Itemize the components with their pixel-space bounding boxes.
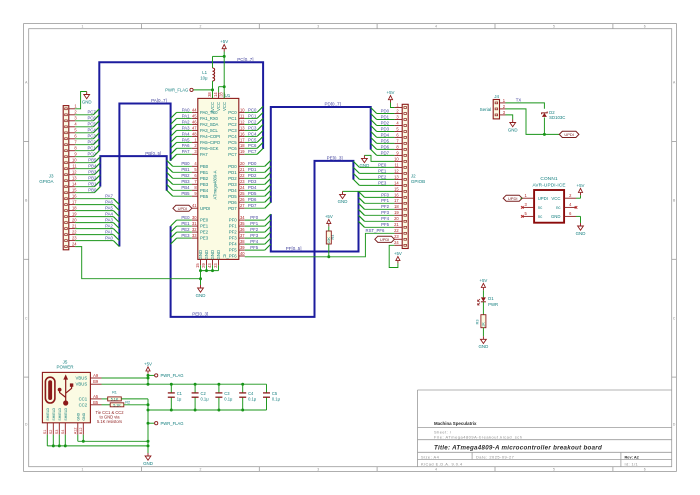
svg-text:16: 16 xyxy=(240,131,245,136)
svg-text:PF1: PF1 xyxy=(229,224,237,229)
svg-text:41: 41 xyxy=(192,203,197,208)
svg-text:28: 28 xyxy=(219,92,224,97)
svg-text:PA1: PA1 xyxy=(182,113,190,118)
svg-text:PE1: PE1 xyxy=(378,168,387,173)
svg-text:10μ: 10μ xyxy=(200,76,208,81)
svg-text:PA0: PA0 xyxy=(182,107,190,112)
svg-text:PD6: PD6 xyxy=(228,200,237,205)
svg-text:21: 21 xyxy=(240,167,245,172)
svg-text:PC4: PC4 xyxy=(87,128,96,133)
svg-text:ATmega4809-A: ATmega4809-A xyxy=(213,170,218,199)
svg-text:PF3: PF3 xyxy=(250,233,258,238)
svg-text:0.1μ: 0.1μ xyxy=(248,397,257,402)
svg-text:22: 22 xyxy=(72,230,77,235)
svg-text:30: 30 xyxy=(192,215,197,220)
svg-text:24: 24 xyxy=(72,242,77,247)
svg-text:PC3: PC3 xyxy=(228,128,237,133)
svg-text:11: 11 xyxy=(72,164,77,169)
svg-text:PA1: PA1 xyxy=(105,230,113,235)
svg-text:Serial: Serial xyxy=(480,107,492,112)
svg-text:J2: J2 xyxy=(411,174,416,179)
svg-text:PF5: PF5 xyxy=(229,248,237,253)
svg-text:21: 21 xyxy=(394,222,399,227)
svg-text:PB3: PB3 xyxy=(88,170,97,175)
svg-text:PE0: PE0 xyxy=(200,218,209,223)
svg-text:Date: 2025-09-27: Date: 2025-09-27 xyxy=(476,454,514,459)
svg-text:PD4: PD4 xyxy=(228,188,237,193)
svg-text:PC4: PC4 xyxy=(248,131,257,136)
svg-text:GND: GND xyxy=(82,99,92,104)
svg-text:PA4: PA4 xyxy=(182,131,190,136)
svg-text:GND: GND xyxy=(143,461,153,466)
svg-text:5.1K: 5.1K xyxy=(111,397,119,401)
svg-text:GND: GND xyxy=(198,250,203,260)
svg-text:PE[0..3]: PE[0..3] xyxy=(327,156,343,161)
svg-text:+5V: +5V xyxy=(220,39,228,44)
svg-text:SHIELD: SHIELD xyxy=(46,407,50,420)
svg-text:PE3: PE3 xyxy=(378,180,387,185)
svg-text:PD1: PD1 xyxy=(381,114,390,119)
svg-text:1: 1 xyxy=(82,25,84,29)
svg-text:PF4: PF4 xyxy=(381,216,389,221)
svg-text:PA0: PA0 xyxy=(105,236,113,241)
svg-text:PC2: PC2 xyxy=(87,140,96,145)
svg-text:PB1: PB1 xyxy=(88,182,97,187)
svg-text:PB3: PB3 xyxy=(200,182,209,187)
svg-text:18: 18 xyxy=(240,143,245,148)
svg-text:PC5: PC5 xyxy=(248,137,257,142)
svg-text:C1: C1 xyxy=(177,391,183,396)
svg-text:PD5: PD5 xyxy=(228,194,237,199)
svg-text:Sheet: /: Sheet: / xyxy=(434,429,452,434)
svg-text:GPIOA: GPIOA xyxy=(39,179,53,184)
svg-text:19: 19 xyxy=(240,149,245,154)
svg-text:GND: GND xyxy=(479,344,489,349)
svg-text:43: 43 xyxy=(207,263,212,268)
svg-text:PA5~CIPO: PA5~CIPO xyxy=(200,140,221,145)
svg-text:5: 5 xyxy=(553,25,555,29)
svg-text:S1: S1 xyxy=(43,430,47,435)
svg-text:PD3: PD3 xyxy=(381,126,390,131)
svg-text:C5: C5 xyxy=(272,391,278,396)
svg-text:19: 19 xyxy=(394,210,399,215)
svg-text:5.1K: 5.1K xyxy=(113,403,121,407)
svg-text:Title: ATmega4809-A microcontr: Title: ATmega4809-A microcontroller brea… xyxy=(434,444,602,451)
svg-text:44: 44 xyxy=(192,107,197,112)
svg-text:PD6: PD6 xyxy=(248,197,257,202)
svg-text:PA6: PA6 xyxy=(105,200,113,205)
svg-text:38: 38 xyxy=(240,239,245,244)
svg-text:12: 12 xyxy=(394,168,399,173)
svg-text:PA[0..7]: PA[0..7] xyxy=(151,98,167,103)
svg-text:PE2: PE2 xyxy=(181,227,190,232)
svg-text:R_PF6: R_PF6 xyxy=(223,254,237,259)
svg-text:PA4~COPI: PA4~COPI xyxy=(200,134,220,139)
svg-text:SHIELD: SHIELD xyxy=(52,407,56,420)
svg-text:PC1: PC1 xyxy=(87,146,96,151)
svg-text:1K: 1K xyxy=(482,322,486,327)
svg-text:GND: GND xyxy=(508,127,518,132)
svg-text:PD2: PD2 xyxy=(228,176,237,181)
svg-text:1: 1 xyxy=(82,468,84,472)
svg-text:21: 21 xyxy=(72,224,77,229)
svg-text:17: 17 xyxy=(240,137,245,142)
svg-text:20: 20 xyxy=(240,161,245,166)
svg-text:PD7: PD7 xyxy=(248,203,257,208)
svg-text:18: 18 xyxy=(394,204,399,209)
svg-text:RST_PF6: RST_PF6 xyxy=(366,228,385,233)
svg-text:GND: GND xyxy=(76,412,80,420)
svg-text:PF2: PF2 xyxy=(250,227,258,232)
svg-text:C4: C4 xyxy=(248,391,254,396)
svg-text:GND: GND xyxy=(210,250,215,260)
svg-text:15: 15 xyxy=(394,186,399,191)
svg-text:+5V: +5V xyxy=(325,214,333,219)
svg-text:PC2: PC2 xyxy=(228,122,237,127)
svg-text:PB5: PB5 xyxy=(181,191,190,196)
svg-text:PE2: PE2 xyxy=(200,230,209,235)
svg-text:PA1_RX0: PA1_RX0 xyxy=(200,116,219,121)
svg-text:40: 40 xyxy=(240,251,245,256)
svg-text:33: 33 xyxy=(213,263,218,268)
svg-text:PF4: PF4 xyxy=(250,239,258,244)
svg-text:10: 10 xyxy=(72,158,77,163)
svg-text:12: 12 xyxy=(72,170,77,175)
svg-text:PB1: PB1 xyxy=(181,167,190,172)
svg-text:46: 46 xyxy=(192,119,197,124)
svg-text:PF3: PF3 xyxy=(229,236,237,241)
svg-text:1μ: 1μ xyxy=(177,397,182,402)
svg-text:25: 25 xyxy=(240,191,245,196)
svg-text:4: 4 xyxy=(435,25,437,29)
svg-text:20: 20 xyxy=(72,218,77,223)
svg-text:PE1: PE1 xyxy=(181,221,190,226)
svg-text:PA7: PA7 xyxy=(182,149,190,154)
svg-text:38: 38 xyxy=(207,92,212,97)
svg-text:5.1K resistors: 5.1K resistors xyxy=(97,419,122,424)
svg-text:PA3: PA3 xyxy=(105,218,113,223)
svg-text:GND: GND xyxy=(196,293,206,298)
svg-text:26: 26 xyxy=(240,197,245,202)
svg-text:23: 23 xyxy=(240,179,245,184)
svg-text:PWR_FLAG: PWR_FLAG xyxy=(161,421,184,426)
svg-text:PC6: PC6 xyxy=(248,143,257,148)
svg-text:PB0: PB0 xyxy=(200,164,209,169)
svg-text:PC7: PC7 xyxy=(87,110,96,115)
svg-text:PA7: PA7 xyxy=(200,152,208,157)
svg-text:10: 10 xyxy=(394,156,399,161)
svg-text:PA2: PA2 xyxy=(105,224,113,229)
svg-text:R1: R1 xyxy=(112,390,117,394)
svg-text:PF2: PF2 xyxy=(381,204,389,209)
svg-text:14: 14 xyxy=(72,182,77,187)
svg-text:UPDI: UPDI xyxy=(538,196,548,201)
svg-text:PC1: PC1 xyxy=(248,113,257,118)
svg-text:PA5: PA5 xyxy=(105,206,113,211)
svg-text:0.1μ: 0.1μ xyxy=(224,397,233,402)
svg-text:B5: B5 xyxy=(93,400,99,405)
svg-text:32: 32 xyxy=(192,227,197,232)
svg-text:R4: R4 xyxy=(331,235,335,240)
svg-text:R2: R2 xyxy=(125,400,130,404)
svg-text:PB4: PB4 xyxy=(181,185,190,190)
svg-text:22: 22 xyxy=(394,228,399,233)
svg-text:AVR-UPDI-ICE: AVR-UPDI-ICE xyxy=(532,183,565,188)
svg-text:3: 3 xyxy=(317,25,319,29)
svg-text:PD4: PD4 xyxy=(381,132,390,137)
svg-text:PF3: PF3 xyxy=(381,210,389,215)
svg-text:S4: S4 xyxy=(61,430,65,435)
svg-text:C3: C3 xyxy=(224,391,230,396)
svg-text:VBUS: VBUS xyxy=(75,382,87,387)
svg-text:39: 39 xyxy=(240,245,245,250)
svg-text:PF1: PF1 xyxy=(381,198,389,203)
svg-text:24: 24 xyxy=(394,240,399,245)
svg-text:PC0: PC0 xyxy=(248,107,257,112)
svg-text:3: 3 xyxy=(317,468,319,472)
svg-text:24: 24 xyxy=(240,185,245,190)
svg-text:PC[0..7]: PC[0..7] xyxy=(237,57,253,62)
svg-text:PD1: PD1 xyxy=(248,167,257,172)
svg-text:PF1: PF1 xyxy=(250,221,258,226)
svg-text:PC1: PC1 xyxy=(228,116,237,121)
svg-text:AVCC: AVCC xyxy=(210,102,215,114)
svg-text:0.1μ: 0.1μ xyxy=(201,397,210,402)
svg-text:B9: B9 xyxy=(93,379,99,384)
svg-text:18: 18 xyxy=(72,206,77,211)
svg-text:PD4: PD4 xyxy=(248,185,257,190)
svg-text:PB1: PB1 xyxy=(200,170,209,175)
svg-text:PE2: PE2 xyxy=(378,174,387,179)
svg-text:SHIELD: SHIELD xyxy=(64,407,68,420)
svg-text:D1: D1 xyxy=(488,296,494,301)
svg-text:33: 33 xyxy=(192,233,197,238)
svg-text:PD1: PD1 xyxy=(228,170,237,175)
svg-text:VBUS: VBUS xyxy=(75,376,87,381)
svg-text:31: 31 xyxy=(192,221,197,226)
svg-text:PF5: PF5 xyxy=(250,245,258,250)
svg-text:PF5: PF5 xyxy=(381,222,389,227)
svg-text:L1: L1 xyxy=(202,70,207,75)
svg-text:45: 45 xyxy=(192,113,197,118)
svg-text:PE3: PE3 xyxy=(181,233,190,238)
svg-text:13: 13 xyxy=(394,174,399,179)
svg-text:PF2: PF2 xyxy=(229,230,237,235)
svg-text:PB0: PB0 xyxy=(181,161,190,166)
svg-text:VCC: VCC xyxy=(551,196,560,201)
svg-text:UPDI: UPDI xyxy=(508,196,518,201)
svg-text:0.1μ: 0.1μ xyxy=(272,397,281,402)
svg-text:B12: B12 xyxy=(79,428,83,435)
svg-text:PD0: PD0 xyxy=(381,108,390,113)
svg-text:PF0: PF0 xyxy=(381,192,389,197)
svg-text:14: 14 xyxy=(213,92,218,97)
svg-text:UPDI: UPDI xyxy=(178,206,188,211)
svg-text:PA4: PA4 xyxy=(105,212,113,217)
svg-text:U1: U1 xyxy=(225,93,231,98)
svg-text:23: 23 xyxy=(394,234,399,239)
svg-text:PC3: PC3 xyxy=(87,134,96,139)
svg-text:GND: GND xyxy=(338,199,348,204)
svg-text:PD7: PD7 xyxy=(228,206,237,211)
svg-text:PD7: PD7 xyxy=(381,150,390,155)
svg-text:14: 14 xyxy=(394,180,399,185)
svg-text:PB0: PB0 xyxy=(88,188,97,193)
svg-text:SD103C: SD103C xyxy=(549,115,565,120)
svg-text:48: 48 xyxy=(192,131,197,136)
svg-text:A12: A12 xyxy=(73,428,77,435)
svg-text:16: 16 xyxy=(394,192,399,197)
svg-text:GND: GND xyxy=(551,214,561,219)
svg-text:17: 17 xyxy=(394,198,399,203)
svg-text:PD6: PD6 xyxy=(381,144,390,149)
svg-text:C2: C2 xyxy=(201,391,207,396)
svg-text:47: 47 xyxy=(192,125,197,130)
svg-text:PD5: PD5 xyxy=(381,138,390,143)
svg-text:PD2: PD2 xyxy=(381,120,390,125)
svg-text:PB5: PB5 xyxy=(88,158,97,163)
svg-text:PF[0..5]: PF[0..5] xyxy=(286,246,302,251)
svg-text:Size: A4: Size: A4 xyxy=(421,454,440,459)
svg-text:PD2: PD2 xyxy=(248,173,257,178)
svg-text:6: 6 xyxy=(644,25,646,29)
svg-text:PWR_FLAG: PWR_FLAG xyxy=(161,373,184,378)
svg-text:2: 2 xyxy=(199,468,201,472)
svg-text:PD0: PD0 xyxy=(248,161,257,166)
svg-text:S2: S2 xyxy=(49,430,53,435)
svg-text:PA6~SCK: PA6~SCK xyxy=(200,146,219,151)
svg-text:PE[0..3]: PE[0..3] xyxy=(192,312,208,317)
svg-text:UPDI: UPDI xyxy=(564,132,574,137)
svg-text:6: 6 xyxy=(644,468,646,472)
svg-text:PD3: PD3 xyxy=(248,179,257,184)
svg-text:PD[0..7]: PD[0..7] xyxy=(325,102,341,107)
svg-text:TX: TX xyxy=(516,98,522,103)
svg-text:SHIELD: SHIELD xyxy=(58,407,62,420)
svg-text:PE1: PE1 xyxy=(200,224,209,229)
svg-text:23: 23 xyxy=(72,236,77,241)
svg-text:PB3: PB3 xyxy=(181,179,190,184)
svg-text:PB2: PB2 xyxy=(181,173,190,178)
svg-text:34: 34 xyxy=(240,215,245,220)
svg-text:PF4: PF4 xyxy=(229,242,237,247)
svg-text:20: 20 xyxy=(394,216,399,221)
svg-text:22: 22 xyxy=(240,173,245,178)
svg-text:Machina Speculatrix: Machina Speculatrix xyxy=(434,421,477,426)
svg-text:CC1: CC1 xyxy=(79,396,88,401)
svg-text:PA2_SDA: PA2_SDA xyxy=(200,122,219,127)
svg-text:VCC: VCC xyxy=(222,102,227,111)
svg-text:GND: GND xyxy=(204,250,209,260)
svg-text:PD3: PD3 xyxy=(228,182,237,187)
svg-text:CONN1: CONN1 xyxy=(540,176,558,181)
svg-text:PA5: PA5 xyxy=(182,137,190,142)
svg-text:PC3: PC3 xyxy=(248,125,257,130)
svg-text:19: 19 xyxy=(72,212,77,217)
svg-text:PWR_FLAG: PWR_FLAG xyxy=(165,88,188,93)
svg-text:VCC: VCC xyxy=(216,102,221,111)
svg-text:PB4: PB4 xyxy=(88,164,97,169)
svg-text:PC6: PC6 xyxy=(228,146,237,151)
svg-text:11: 11 xyxy=(240,113,245,118)
svg-text:+5V: +5V xyxy=(144,361,152,366)
svg-text:13: 13 xyxy=(72,176,77,181)
svg-text:4: 4 xyxy=(435,468,437,472)
svg-text:PC6: PC6 xyxy=(87,116,96,121)
svg-text:Rev: A2: Rev: A2 xyxy=(625,454,640,459)
svg-text:17: 17 xyxy=(72,200,77,205)
svg-text:PD5: PD5 xyxy=(248,191,257,196)
svg-text:PC0: PC0 xyxy=(87,152,96,157)
svg-text:PB[0..5]: PB[0..5] xyxy=(145,151,161,156)
svg-text:PA2: PA2 xyxy=(182,119,190,124)
svg-text:+5V: +5V xyxy=(577,183,585,188)
svg-text:PF0: PF0 xyxy=(250,215,258,220)
svg-text:2: 2 xyxy=(199,25,201,29)
svg-text:29: 29 xyxy=(201,263,206,268)
svg-text:13: 13 xyxy=(240,125,245,130)
svg-text:PC0: PC0 xyxy=(228,110,237,115)
svg-text:PE0: PE0 xyxy=(181,215,190,220)
svg-text:PD0: PD0 xyxy=(228,164,237,169)
svg-text:PC5: PC5 xyxy=(228,140,237,145)
svg-text:PF0: PF0 xyxy=(229,218,237,223)
svg-text:CC2: CC2 xyxy=(79,402,88,407)
svg-text:A9: A9 xyxy=(93,373,99,378)
svg-text:27: 27 xyxy=(240,203,245,208)
svg-text:R3: R3 xyxy=(475,320,479,325)
svg-text:PB4: PB4 xyxy=(200,188,209,193)
svg-text:PB2: PB2 xyxy=(200,176,209,181)
svg-text:File: ATmega4809A-breakout.kic: File: ATmega4809A-breakout.kicad_sch xyxy=(434,435,523,440)
svg-text:S3: S3 xyxy=(55,430,59,435)
svg-text:PC4: PC4 xyxy=(228,134,237,139)
svg-text:GND: GND xyxy=(82,412,86,420)
svg-text:PC7: PC7 xyxy=(228,152,237,157)
svg-text:15: 15 xyxy=(195,263,200,268)
svg-text:15: 15 xyxy=(72,188,77,193)
svg-text:GPIOB: GPIOB xyxy=(411,179,425,184)
svg-text:UPDI: UPDI xyxy=(200,206,210,211)
svg-text:36: 36 xyxy=(240,227,245,232)
svg-text:35: 35 xyxy=(240,221,245,226)
svg-text:PC2: PC2 xyxy=(248,119,257,124)
svg-text:12: 12 xyxy=(240,119,245,124)
svg-text:Id: 1/1: Id: 1/1 xyxy=(625,461,639,466)
svg-text:PE3: PE3 xyxy=(200,236,209,241)
svg-text:PWR: PWR xyxy=(488,302,498,307)
svg-text:PB5: PB5 xyxy=(200,194,209,199)
svg-text:PA3_SCL: PA3_SCL xyxy=(200,128,219,133)
svg-text:J4: J4 xyxy=(494,94,499,99)
svg-text:KiCad E.D.A. 9.0.4: KiCad E.D.A. 9.0.4 xyxy=(421,461,463,466)
svg-text:+5V: +5V xyxy=(479,278,487,283)
svg-text:PB2: PB2 xyxy=(88,176,97,181)
svg-text:PC7: PC7 xyxy=(248,149,257,154)
svg-text:16: 16 xyxy=(72,194,77,199)
svg-text:PC5: PC5 xyxy=(87,122,96,127)
svg-text:POWER: POWER xyxy=(56,365,74,370)
svg-text:UPDI: UPDI xyxy=(380,237,390,242)
svg-text:5: 5 xyxy=(553,468,555,472)
svg-text:PA7: PA7 xyxy=(105,194,113,199)
svg-text:10: 10 xyxy=(240,107,245,112)
svg-text:+5V: +5V xyxy=(394,251,402,256)
svg-text:+5V: +5V xyxy=(387,90,395,95)
svg-text:37: 37 xyxy=(240,233,245,238)
svg-text:A5: A5 xyxy=(93,394,99,399)
svg-text:GND: GND xyxy=(216,250,221,260)
